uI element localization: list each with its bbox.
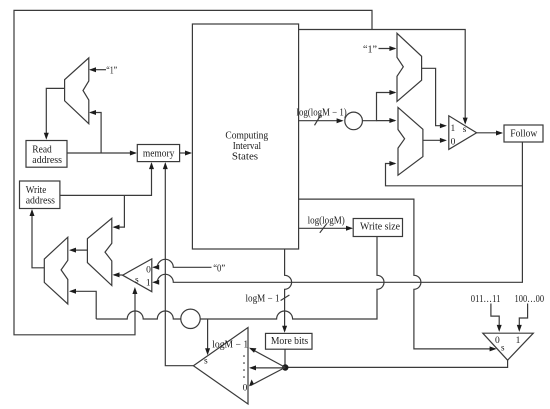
svg-text:s: s (501, 343, 505, 353)
wire triangle T4 output to junction dot (285, 360, 507, 367)
svg-text:“0”: “0” (213, 263, 225, 274)
svg-text:More bits: More bits (271, 336, 308, 347)
wire write branch down to mux M3 upper input (114, 195, 124, 227)
wire More bits bottom to junction dot (284, 349, 286, 367)
wire block output log(logM-1) to circle C1 (299, 120, 342, 122)
svg-text:“1”: “1” (363, 45, 377, 56)
wire Read address to memory (67, 152, 136, 154)
wire 011...11 into triangle T4 input 0 (491, 304, 499, 331)
bus slash on More bits wire (281, 295, 290, 301)
wire "1" to mux M1 upper input (91, 69, 107, 71)
svg-text:s: s (204, 357, 208, 367)
wire logM-1 bus from Follow feedback to small triangle input 1 (hop over memory line) (154, 142, 523, 282)
svg-text:1: 1 (516, 336, 521, 346)
wire triangle T1 output to mux M3 lower input (114, 274, 123, 276)
mux M4 (top-right upper) (397, 33, 422, 101)
wire mux M1 lower input tap from read address bus (91, 113, 102, 154)
svg-text:Computing: Computing (225, 131, 268, 142)
wire select loop border: from small triangle s, around page left/top to top-right net (14, 10, 372, 334)
wire dot fan-out to big triangle T3 inputs (251, 349, 286, 368)
wire branch down to big triangle select (207, 319, 209, 354)
svg-text:log(logM): log(logM) (308, 216, 345, 227)
svg-text:0: 0 (146, 265, 151, 275)
svg-text:Write size: Write size (360, 221, 401, 232)
wire Follow feedback to mux M5 lower input (386, 164, 523, 186)
svg-text:011…11: 011…11 (471, 294, 501, 305)
wire triangle T3 output left and up to memory bottom (165, 164, 193, 366)
arrowhead select into triangle T2 (463, 118, 468, 125)
svg-text:1: 1 (451, 124, 456, 134)
wire Write address to memory bottom (60, 164, 152, 196)
box Follow (504, 125, 543, 142)
svg-text:100…00: 100…00 (515, 294, 545, 305)
wire mux M2 output up to Write address bottom (32, 211, 44, 268)
wire memory to Computing block (180, 152, 191, 154)
svg-text:0: 0 (495, 336, 500, 346)
wire block output to Write size (299, 227, 352, 229)
svg-text:s: s (463, 125, 467, 135)
svg-text:address: address (26, 196, 55, 207)
svg-text:Read: Read (32, 145, 52, 156)
wire "0" to small triangle input 0 (hop over memory line) (154, 259, 212, 267)
triangle mux T2 (right, before Follow) (449, 116, 477, 150)
svg-text:Follow: Follow (510, 129, 538, 140)
box Write size (353, 219, 402, 237)
triangle mux T4 (bottom-right, inverted) (483, 333, 534, 360)
wire mux M3 output to mux M2 upper input (71, 249, 88, 251)
box More bits (266, 333, 313, 349)
svg-text:0: 0 (243, 384, 248, 394)
wire write-size bus horizontal with hops, to Write size box vertical (96, 311, 181, 319)
box memory (137, 145, 179, 162)
node circle C1 (345, 112, 363, 130)
triangle mux T1 (small, middle-left) (123, 259, 152, 292)
vertical ellipsis inside T3 (243, 355, 245, 357)
svg-text:“1”: “1” (106, 65, 117, 76)
svg-text:memory: memory (143, 149, 175, 160)
wire block select output down to bottom triangle T4 select (hops over logM-1 bus) (299, 199, 495, 349)
junction dot (282, 364, 288, 370)
svg-text:1: 1 (146, 279, 151, 289)
bus slash on log(logM-1) wire (315, 114, 322, 125)
bus slash on log(logM) wire (320, 224, 327, 233)
wire mux M4 output to triangle T2 input 1 (422, 68, 446, 125)
svg-text:log(logM − 1): log(logM − 1) (297, 108, 347, 119)
mux M3 (middle-left upper) (87, 218, 111, 285)
svg-text:Write: Write (26, 185, 47, 196)
svg-text:logM − 1: logM − 1 (212, 340, 248, 351)
svg-text:States: States (232, 151, 258, 162)
wire mux M2 lower input from write-size bus (71, 291, 97, 319)
box Write address (20, 181, 60, 209)
svg-text:logM − 1: logM − 1 (246, 294, 280, 305)
box Read address (26, 141, 67, 168)
wire mux M5 output to triangle T2 input 0 (423, 139, 445, 141)
svg-text:address: address (32, 155, 62, 166)
triangle T3 (big, bottom-center) (193, 328, 248, 405)
wire triangle T2 output to Follow (477, 132, 502, 134)
wire 100...00 into triangle T4 input 1 (519, 304, 527, 331)
node circle C2 on write-size bus (181, 309, 200, 328)
wire block bottom output down to More bits (hops over logM-1 bus) (285, 249, 292, 331)
mux M2 (lower-left) (44, 237, 68, 304)
wire select loop arrow into small triangle s (132, 287, 137, 294)
mux M1 (top-left) (65, 58, 89, 124)
svg-text:0: 0 (451, 138, 456, 148)
block Computing Interval States (192, 24, 298, 249)
wire select net top-right: block output to Tri R select (299, 30, 466, 124)
wire "1" to mux M4 upper input (379, 48, 396, 50)
svg-text:s: s (135, 275, 139, 285)
wire C1 output to mux M4 lower and mux M5 upper inputs (362, 93, 395, 121)
mux M5 (top-right lower) (398, 107, 423, 175)
wire mux M1 output to Read address (46, 88, 64, 138)
